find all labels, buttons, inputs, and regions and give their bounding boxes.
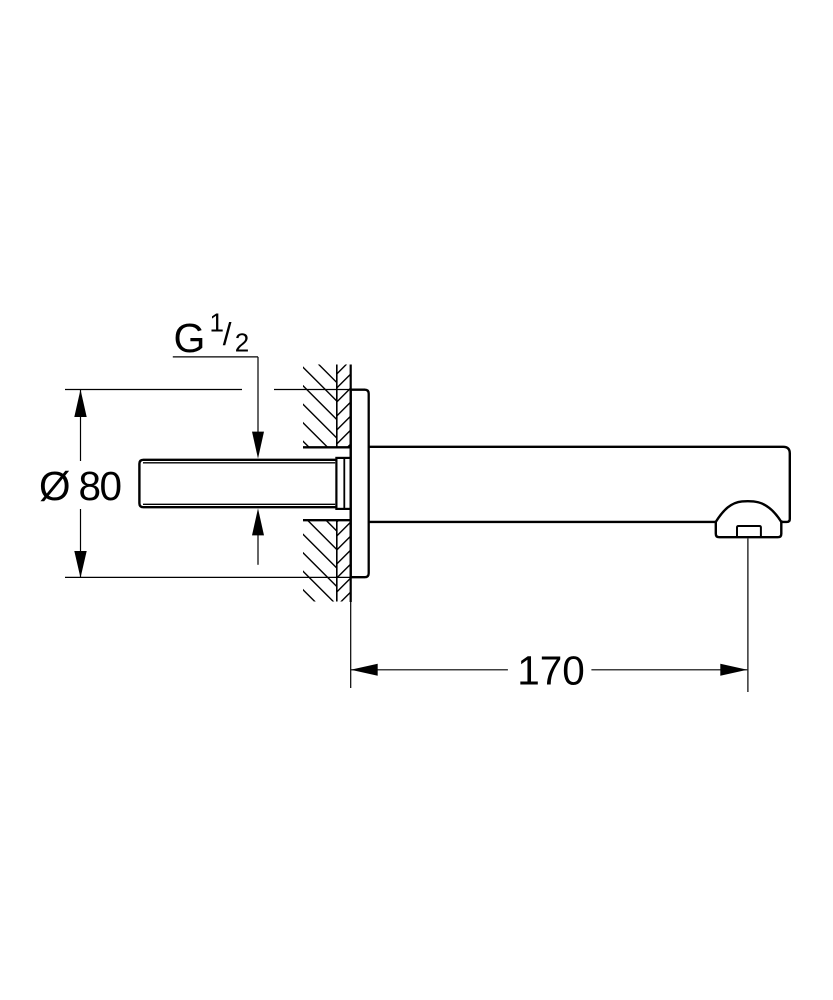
G1/2 arrow up to pipe bottom: [252, 508, 264, 535]
wall hatching lower main (\ lines): [300, 476, 460, 747]
dim 170 arrow right: [720, 664, 747, 676]
flange escutcheon: [351, 390, 369, 578]
dim Ø80 arrow up: [74, 390, 86, 418]
pipe ring at wall: [336, 458, 350, 509]
svg-text:/: /: [223, 316, 232, 352]
aerator outlet: [737, 526, 761, 537]
svg-text:G: G: [174, 315, 206, 361]
svg-text:2: 2: [235, 328, 249, 358]
wall inner line lower: [336, 520, 338, 601]
wall inner line upper: [336, 365, 338, 448]
svg-text:Ø 80: Ø 80: [39, 463, 122, 509]
wall hatching lower band (/ lines): [330, 499, 360, 613]
dim Ø80 top extension line: [65, 389, 242, 391]
dim Ø80 arrow down: [74, 551, 86, 578]
dim Ø80 vertical line: [80, 390, 82, 462]
dim Ø80 bottom extension line: [65, 576, 351, 578]
dim 170 left extension line (wall line continuation): [350, 602, 352, 688]
dim 170 line left segment: [351, 669, 508, 671]
ring middle line: [343, 458, 345, 509]
svg-text:1: 1: [210, 308, 224, 338]
aerator housing: [716, 520, 782, 537]
G1/2 arrow down to pipe: [252, 432, 264, 459]
wall hatching upper band (/ lines): [330, 337, 360, 465]
wall surface line: [350, 365, 352, 603]
G1/2 leader underline: [173, 356, 258, 358]
G1/2 threaded pipe: [139, 460, 336, 507]
spout body outline: [369, 447, 790, 522]
wall hole top edge: [303, 446, 351, 448]
spout bottom edge: [369, 521, 716, 523]
wall hatching upper main (\ lines): [300, 327, 460, 598]
dim 170 right extension line: [747, 539, 749, 693]
thread minor line bottom: [143, 503, 335, 505]
svg-text:170: 170: [517, 648, 585, 694]
dim 170 arrow left: [351, 664, 378, 676]
G1/2 leader vertical lower: [257, 535, 259, 565]
thread minor line top: [143, 462, 335, 464]
G1/2 leader vertical upper: [257, 357, 259, 433]
dim 170 line right segment: [591, 669, 747, 671]
aerator dome: [716, 501, 782, 522]
wall hole bottom edge: [303, 519, 351, 521]
